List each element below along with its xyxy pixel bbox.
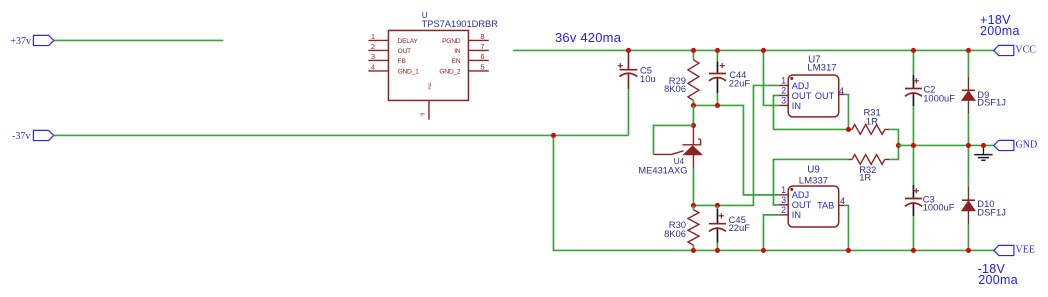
svg-text:7: 7 <box>481 42 485 51</box>
svg-text:IN: IN <box>792 210 801 220</box>
svg-text:8: 8 <box>481 32 485 41</box>
svg-text:+37v: +37v <box>10 36 31 47</box>
svg-text:-37v: -37v <box>12 131 30 142</box>
svg-text:3: 3 <box>781 96 786 106</box>
svg-text:200ma: 200ma <box>980 24 1020 38</box>
svg-text:22uF: 22uF <box>729 78 751 89</box>
svg-text:EN: EN <box>452 58 461 65</box>
svg-text:OUT: OUT <box>398 48 412 55</box>
svg-text:4: 4 <box>839 86 844 96</box>
svg-text:IN: IN <box>454 48 461 55</box>
svg-text:FB: FB <box>398 58 407 65</box>
svg-text:1R: 1R <box>866 116 878 127</box>
svg-text:22uF: 22uF <box>729 222 751 233</box>
svg-text:ADJ: ADJ <box>792 190 809 200</box>
svg-text:1: 1 <box>371 32 375 41</box>
svg-text:8K06: 8K06 <box>664 83 686 94</box>
svg-text:OUT: OUT <box>792 200 812 210</box>
svg-text:PAD: PAD <box>428 82 432 90</box>
svg-text:PGND: PGND <box>442 38 461 45</box>
svg-text:IN: IN <box>792 101 801 111</box>
svg-text:GND: GND <box>1016 139 1038 150</box>
svg-text:GND_2: GND_2 <box>439 68 461 75</box>
svg-text:6: 6 <box>481 52 485 61</box>
svg-text:ADJ: ADJ <box>792 81 809 91</box>
svg-text:DSF1J: DSF1J <box>977 96 1006 107</box>
svg-text:1000uF: 1000uF <box>923 202 955 213</box>
svg-text:LM317: LM317 <box>807 63 836 74</box>
svg-text:9: 9 <box>421 113 427 116</box>
svg-text:10u: 10u <box>640 73 656 84</box>
svg-text:VEE: VEE <box>1016 244 1035 255</box>
svg-text:1: 1 <box>781 76 786 86</box>
svg-text:GND_1: GND_1 <box>398 68 420 75</box>
svg-text:2: 2 <box>371 42 375 51</box>
svg-text:1R: 1R <box>859 172 871 183</box>
svg-text:1: 1 <box>781 185 786 195</box>
svg-text:4: 4 <box>840 196 845 206</box>
svg-text:U9: U9 <box>807 164 820 175</box>
svg-text:2: 2 <box>781 205 786 215</box>
svg-text:1000uF: 1000uF <box>923 92 955 103</box>
svg-text:3: 3 <box>371 52 375 61</box>
svg-text:4: 4 <box>371 63 375 72</box>
svg-text:U4: U4 <box>674 157 685 166</box>
svg-text:ME431AXG: ME431AXG <box>638 166 687 176</box>
svg-text:LM337: LM337 <box>799 176 828 187</box>
svg-text:3: 3 <box>781 195 786 205</box>
svg-text:OUT: OUT <box>792 91 812 101</box>
svg-text:5: 5 <box>481 63 485 72</box>
svg-text:8K06: 8K06 <box>664 228 686 239</box>
svg-text:OUT: OUT <box>815 91 835 101</box>
svg-text:VCC: VCC <box>1015 44 1036 55</box>
svg-text:TAB: TAB <box>817 200 834 210</box>
svg-text:2: 2 <box>781 86 786 96</box>
svg-text:DSF1J: DSF1J <box>977 206 1006 217</box>
svg-text:DELAY: DELAY <box>398 38 419 45</box>
svg-text:36v 420ma: 36v 420ma <box>555 30 622 45</box>
svg-text:TPS7A1901DRBR: TPS7A1901DRBR <box>422 19 499 29</box>
svg-text:200ma: 200ma <box>978 273 1018 287</box>
